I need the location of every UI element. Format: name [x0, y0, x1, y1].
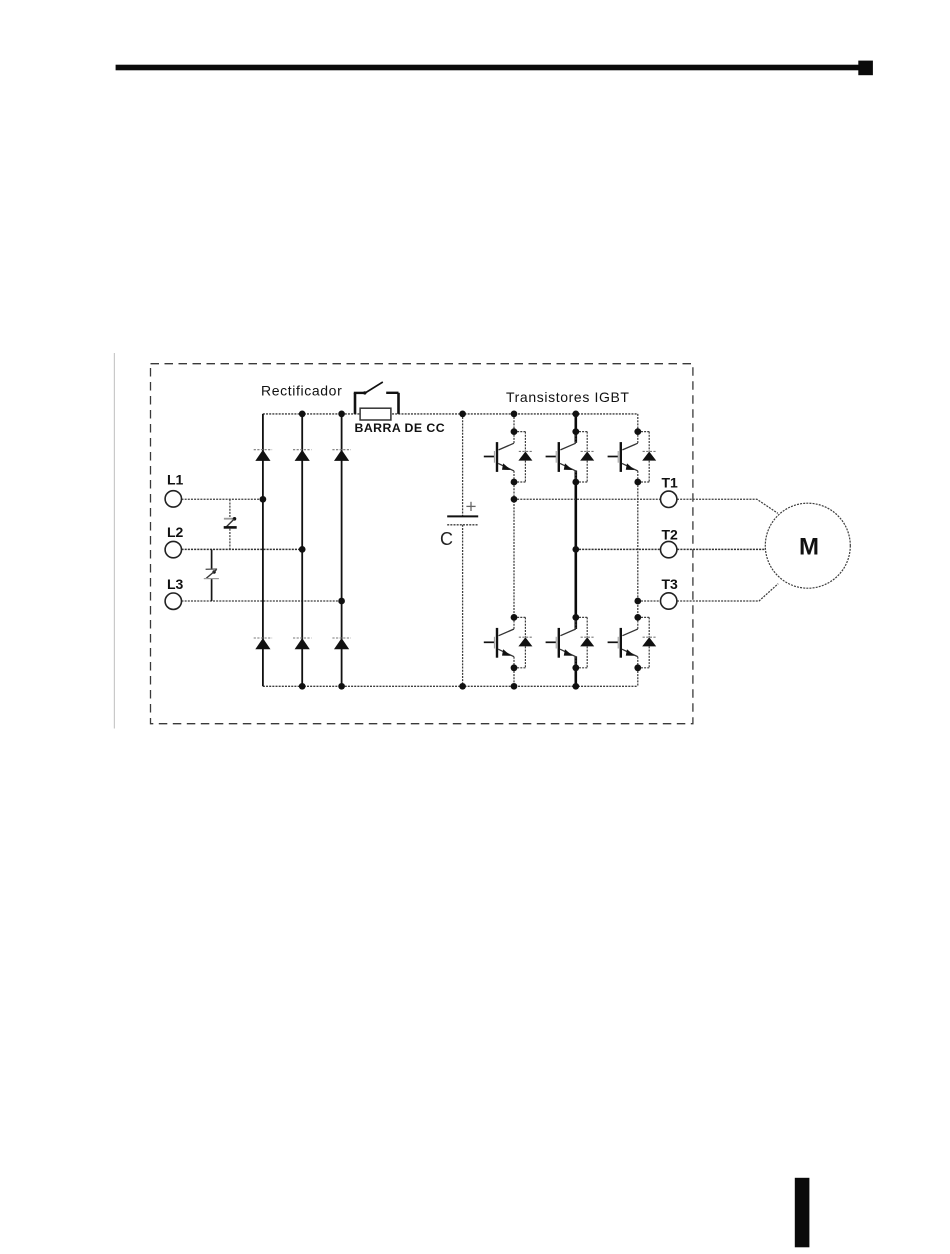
svg-text:T3: T3 [662, 576, 679, 592]
svg-text:L3: L3 [167, 576, 184, 592]
svg-text:M: M [799, 533, 819, 560]
svg-text:L2: L2 [167, 524, 184, 540]
svg-text:T2: T2 [662, 526, 679, 542]
svg-text:BARRA DE CC: BARRA DE CC [355, 421, 446, 435]
svg-text:L1: L1 [167, 471, 184, 487]
svg-text:Rectificador: Rectificador [261, 382, 342, 398]
svg-text:T1: T1 [662, 474, 679, 490]
svg-text:Transistores IGBT: Transistores IGBT [506, 389, 630, 405]
svg-text:C: C [440, 529, 453, 549]
